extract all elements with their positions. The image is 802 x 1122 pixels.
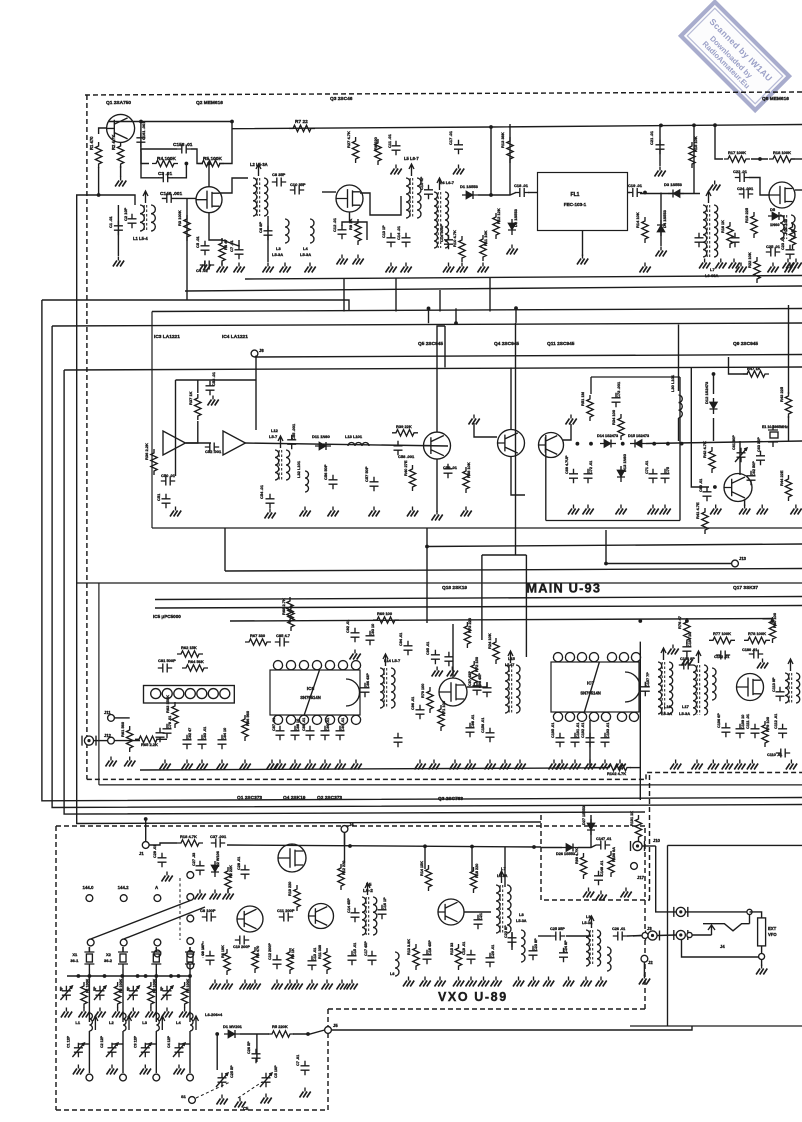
wire D4 xyxy=(660,193,662,247)
switch linkage dashed b xyxy=(238,1082,262,1098)
transformer L18 xyxy=(785,673,789,703)
wire c147 xyxy=(578,845,596,848)
svg-text:C26 5P: C26 5P xyxy=(247,1041,251,1054)
trimmer C4 12P xyxy=(175,1043,184,1057)
ground X2 trim xyxy=(95,1012,106,1018)
node r17 xyxy=(758,157,762,161)
transformer L15 L5-67 xyxy=(505,665,509,713)
resistor R17 100K xyxy=(724,156,750,162)
svg-text:R14 10K: R14 10K xyxy=(635,212,640,228)
node det xyxy=(489,193,493,197)
switch wiper contact 3a xyxy=(154,939,161,946)
svg-text:J1: J1 xyxy=(139,851,144,856)
connector box xyxy=(630,845,802,1026)
resistor R4 100K xyxy=(181,982,187,1008)
node rail link a xyxy=(427,307,431,311)
capacitor C106 6P xyxy=(721,723,730,737)
svg-text:C91 .01: C91 .01 xyxy=(341,718,345,731)
ground IC6 d xyxy=(305,764,316,770)
svg-text:C21: C21 xyxy=(479,913,483,920)
ground tr c xyxy=(785,267,796,273)
svg-text:C96 .01: C96 .01 xyxy=(411,697,415,710)
wire Q9 down xyxy=(744,500,746,506)
svg-text:R1 470: R1 470 xyxy=(89,136,94,150)
svg-text:R102 4.7K: R102 4.7K xyxy=(607,771,626,776)
mixer aux dashed right xyxy=(649,773,651,901)
svg-text:C6 8P: C6 8P xyxy=(258,222,263,233)
ground D2 xyxy=(507,249,518,255)
wire X3 stem xyxy=(155,969,157,1022)
oscillator block box xyxy=(546,377,680,521)
wire J3 to P2 xyxy=(657,934,676,937)
svg-text:C11 200P: C11 200P xyxy=(277,908,295,913)
ground R20 xyxy=(783,263,794,269)
svg-text:C146 .001: C146 .001 xyxy=(160,191,182,197)
svg-text:R68 2.7K: R68 2.7K xyxy=(281,598,286,615)
filter FL1 FEC-103-1 xyxy=(538,173,628,231)
capacitor C147 .01 xyxy=(596,841,610,850)
svg-text:R9 1K: R9 1K xyxy=(348,219,353,230)
resistor R19 225 xyxy=(751,212,757,238)
node lv3 xyxy=(771,619,775,623)
switch contact SW b xyxy=(687,932,692,937)
svg-text:C15 4P: C15 4P xyxy=(419,176,424,190)
svg-text:SN76514N: SN76514N xyxy=(300,695,321,700)
svg-text:C73 .001: C73 .001 xyxy=(616,381,621,398)
IF board box xyxy=(152,312,802,529)
ground vxo row 4 xyxy=(272,984,283,990)
crystal X2 36-2 xyxy=(120,954,126,962)
wire fb vert xyxy=(197,380,199,393)
coil L10 vxo xyxy=(607,947,611,971)
svg-text:C24 8P: C24 8P xyxy=(564,940,568,953)
connector X3 bottom xyxy=(153,1074,160,1081)
switch wiper contact 2 xyxy=(120,939,127,946)
resistor R79 100 xyxy=(762,721,768,747)
resistor R14 10K xyxy=(642,217,648,243)
ground c95g xyxy=(432,671,443,677)
svg-text:R11 330: R11 330 xyxy=(318,945,322,959)
wire rail link a xyxy=(428,308,430,323)
capacitor C90 .01 xyxy=(321,726,330,740)
wire L7 riser xyxy=(504,847,506,887)
wire Q1 collector rail xyxy=(108,121,141,123)
trimmer cap X2 5P xyxy=(96,986,105,1000)
resistor R11 330 xyxy=(324,948,330,974)
wire l9 row2 xyxy=(566,935,591,937)
wire jog horizontal xyxy=(482,554,527,556)
resistor R8 220 xyxy=(375,139,381,165)
wire Q2 out xyxy=(219,178,248,193)
ground IC5 b xyxy=(182,764,193,770)
svg-text:Q1 2SA750: Q1 2SA750 xyxy=(106,100,131,106)
svg-text:EXT: EXT xyxy=(768,926,777,931)
resistor R12 220 xyxy=(338,864,344,890)
node d12 xyxy=(712,372,716,376)
wire FL1 in xyxy=(528,192,538,194)
connector J8 xyxy=(251,350,258,357)
arrow L3 xyxy=(160,1016,165,1030)
ground vxo row 8 xyxy=(322,984,333,990)
svg-text:J2: J2 xyxy=(648,960,653,965)
wire J1 drop xyxy=(145,819,147,842)
transformer L14 L5-7 xyxy=(380,668,384,708)
resistor R47 1K xyxy=(743,371,769,377)
wire q11 base xyxy=(563,424,571,440)
capacitor C54 .01 xyxy=(266,494,275,508)
svg-text:L15: L15 xyxy=(508,656,516,661)
capacitor C16 500P xyxy=(444,235,453,249)
capacitor C84 10 xyxy=(218,735,227,749)
ground C12 xyxy=(337,259,348,265)
diode D26 1S553 xyxy=(566,844,573,852)
node busbar xyxy=(77,974,81,978)
resistor R3 100K xyxy=(184,215,190,241)
ground Q9a xyxy=(710,509,721,515)
wire d12 down xyxy=(713,418,715,441)
capacitor C2 10P xyxy=(128,214,137,228)
ground FL1 xyxy=(577,259,588,265)
transformer L16 L5-3A xyxy=(658,662,662,714)
node rail d xyxy=(713,123,717,127)
svg-text:R19 225: R19 225 xyxy=(744,207,749,223)
resistor R14 15K xyxy=(425,865,431,891)
node D3 in xyxy=(643,191,647,195)
node busbar xyxy=(154,974,158,978)
resistor R15 10K xyxy=(689,142,695,168)
capacitor C69 4.7UP xyxy=(569,469,578,483)
svg-text:L7: L7 xyxy=(710,267,715,272)
ground X4 res xyxy=(179,1012,190,1018)
svg-text:C111 .01: C111 .01 xyxy=(746,714,750,729)
capacitor C1 .01 xyxy=(114,221,123,235)
resistor R10 220 vxo xyxy=(294,885,300,911)
wire Q4 coll xyxy=(510,367,512,429)
resistor EXT VFO box xyxy=(758,918,766,946)
svg-text:R73 220: R73 220 xyxy=(467,617,472,633)
svg-text:C17 .01: C17 .01 xyxy=(448,130,453,145)
capacitor C11 200P xyxy=(279,913,293,922)
svg-text:C12 .01: C12 .01 xyxy=(332,217,337,232)
capacitor C85 4.7 xyxy=(275,638,289,647)
wire rail link b xyxy=(455,308,457,323)
ground C72 xyxy=(583,509,594,515)
connector ext vfo xyxy=(759,954,765,960)
wire L30 up xyxy=(678,325,680,392)
svg-text:R2 4.7K: R2 4.7K xyxy=(111,135,116,150)
svg-text:C113 8P: C113 8P xyxy=(772,677,776,692)
capacitor C22 .01 xyxy=(735,173,749,182)
svg-text:Q3 2SC783: Q3 2SC783 xyxy=(438,796,463,802)
wire X3 stem top xyxy=(155,947,157,952)
wire drop b xyxy=(395,279,397,312)
wire ext gnd stub xyxy=(761,960,763,966)
ground Q9d xyxy=(790,509,801,515)
wire mid rail 2 xyxy=(245,276,802,280)
wire FL1 out xyxy=(628,192,631,194)
switch wafer diagonal 2 xyxy=(124,907,205,939)
capacitor C17 .01 xyxy=(454,140,463,154)
resistor R63 150K xyxy=(172,702,178,728)
ground q18 b xyxy=(429,764,440,770)
coil L32 L101 xyxy=(305,471,309,492)
svg-text:C92 .01: C92 .01 xyxy=(346,620,350,633)
resistor R41 4.7E xyxy=(702,508,708,534)
ground vxo b xyxy=(210,894,221,900)
ground q18 c xyxy=(450,764,461,770)
svg-text:C85 4.7: C85 4.7 xyxy=(276,633,291,638)
wire j4 drop xyxy=(344,832,346,863)
capacitor C91 .01 xyxy=(336,726,345,740)
svg-text:C5: C5 xyxy=(243,1106,249,1111)
svg-text:C109 10: C109 10 xyxy=(741,715,745,729)
wire R15 xyxy=(693,126,695,194)
wire j1 r18 xyxy=(149,843,177,845)
node osc f xyxy=(680,442,684,446)
svg-text:C53 .01: C53 .01 xyxy=(211,371,216,386)
connector X2 bottom xyxy=(120,1074,127,1081)
svg-text:Q18 2SK19: Q18 2SK19 xyxy=(442,585,467,591)
svg-text:R37 1K: R37 1K xyxy=(188,391,193,405)
resistor R18 4.7K vxo xyxy=(177,840,203,846)
svg-text:C16 500P: C16 500P xyxy=(439,224,444,242)
ground X1 trim2 xyxy=(73,1069,84,1075)
wire X4 stem low xyxy=(189,1031,191,1073)
ground ext vfo xyxy=(756,969,767,975)
transformer L7 L6-68A xyxy=(703,205,707,257)
switch linkage dashed xyxy=(196,1082,230,1098)
resistor R18 220 vxo2 xyxy=(470,867,476,893)
svg-text:C156 .01: C156 .01 xyxy=(481,718,485,733)
svg-text:C3 12P: C3 12P xyxy=(133,1035,137,1048)
svg-text:C147 .01: C147 .01 xyxy=(596,837,611,841)
wire opamp2 out xyxy=(245,443,448,446)
ground L3 xyxy=(280,267,291,273)
switch linkage dashed 3 xyxy=(179,878,181,940)
capacitor C21 .01 xyxy=(656,140,665,154)
node busbar xyxy=(188,974,192,978)
wire X4 stem top xyxy=(189,947,191,952)
svg-text:L6: L6 xyxy=(390,972,394,976)
ground vxo right 5 xyxy=(478,981,489,987)
svg-text:R71 100: R71 100 xyxy=(441,700,446,716)
svg-text:R24 10K: R24 10K xyxy=(487,633,492,649)
wire bias3 xyxy=(191,149,203,164)
svg-text:C29 .01: C29 .01 xyxy=(153,845,157,858)
switch contact A xyxy=(154,895,161,902)
wire bias2 xyxy=(141,149,177,164)
svg-text:R6 10K: R6 10K xyxy=(221,945,225,958)
ground X1 trim xyxy=(61,1012,72,1018)
ground bl d xyxy=(300,1092,311,1098)
capacitor C89 .01 xyxy=(306,726,315,740)
svg-text:R34 100: R34 100 xyxy=(611,409,616,425)
ground aux a xyxy=(583,892,594,898)
wire R2 gnd xyxy=(120,166,122,177)
ground C56 xyxy=(328,511,339,517)
wire v link a xyxy=(490,127,492,195)
svg-text:R3 100K: R3 100K xyxy=(177,210,182,226)
wire drop to Q18 area xyxy=(481,555,483,640)
capacitor C161 .001 xyxy=(136,133,145,147)
ground vxo right 2 xyxy=(435,981,446,987)
ground R61 xyxy=(124,761,135,767)
svg-text:L5-3A: L5-3A xyxy=(516,919,527,923)
svg-text:IC7: IC7 xyxy=(587,681,595,687)
ground ic7r b xyxy=(692,764,703,770)
wire left bus 3 xyxy=(64,370,645,814)
svg-text:L6-206×4: L6-206×4 xyxy=(205,1012,223,1017)
capacitor C5 .01 xyxy=(201,241,210,255)
resistor R2 4.7K xyxy=(117,142,123,168)
node feed c xyxy=(470,845,474,849)
wire J8 rail xyxy=(255,355,802,358)
capacitor C13 1P xyxy=(387,233,396,247)
ground C16 xyxy=(443,267,454,273)
svg-text:R14 15K: R14 15K xyxy=(420,861,424,876)
svg-text:5P: 5P xyxy=(126,986,130,991)
capacitor C51 electrolytic xyxy=(162,494,171,508)
svg-text:D15 1S2473: D15 1S2473 xyxy=(628,434,649,438)
node busbar xyxy=(169,974,173,978)
node J1 rail xyxy=(144,817,148,821)
node J13 in xyxy=(604,562,608,566)
svg-text:C14 .01: C14 .01 xyxy=(396,225,401,240)
svg-text:R8 470: R8 470 xyxy=(256,946,260,958)
capacitor C8 100P xyxy=(202,913,216,922)
capacitor C25 .01 xyxy=(766,248,780,257)
ground ic7p b xyxy=(557,764,568,770)
resistor R60 2.7K xyxy=(287,597,293,623)
wire ext vfo top xyxy=(750,912,762,918)
ground C51 xyxy=(170,511,181,517)
svg-text:C71 .01: C71 .01 xyxy=(645,461,649,474)
coil L6 vxo xyxy=(395,952,399,976)
diode D5 1N60 xyxy=(772,212,779,220)
wire X4 trim branch xyxy=(179,1043,190,1045)
ground IC6 c xyxy=(290,764,301,770)
ground IC6 a xyxy=(267,764,278,770)
diode D13 1N60 xyxy=(617,470,625,477)
crystal X1 36-1 xyxy=(86,954,92,962)
svg-text:L6 L6-7: L6 L6-7 xyxy=(440,180,455,185)
ground c104b xyxy=(668,649,679,655)
ground Q5 xyxy=(432,515,443,521)
ground X3 res xyxy=(145,1012,156,1018)
node osc a xyxy=(576,442,580,446)
capacitor C12 .01 xyxy=(338,225,347,239)
node busbar xyxy=(177,974,181,978)
resistor R39 22K xyxy=(392,430,418,436)
ground C104 xyxy=(681,660,692,666)
node busbar xyxy=(88,974,92,978)
svg-text:IC4 LA1221: IC4 LA1221 xyxy=(222,334,248,340)
switch contact SW a xyxy=(747,909,752,914)
svg-text:C25 .01: C25 .01 xyxy=(766,244,781,249)
capacitor C20b .01 xyxy=(731,233,740,247)
VXO dashed bottom xyxy=(328,1008,645,1010)
wire opamp1 out xyxy=(185,442,211,444)
svg-text:R18 220: R18 220 xyxy=(475,864,479,878)
resistor R61 560 xyxy=(127,726,133,752)
ground C5 xyxy=(200,265,211,271)
svg-text:C106 6P: C106 6P xyxy=(717,713,721,728)
crystal X4 36-4 xyxy=(187,954,193,962)
resistor R73 220 xyxy=(464,622,470,648)
ground ic7p a xyxy=(549,764,560,770)
connector J5 xyxy=(325,1027,332,1034)
svg-text:C52 .001: C52 .001 xyxy=(205,449,222,454)
svg-text:C95 .01: C95 .01 xyxy=(426,642,430,655)
ground IC5 d xyxy=(217,764,228,770)
IC5 resistor array xyxy=(144,686,235,704)
wire mid rail xyxy=(185,286,802,291)
ground ic7p d xyxy=(585,764,596,770)
wire Q3 gate xyxy=(322,191,336,193)
svg-text:R66 560: R66 560 xyxy=(245,710,250,726)
svg-text:C83 .01: C83 .01 xyxy=(203,727,207,740)
wire fb vert2 xyxy=(186,421,198,443)
wire Q5 down xyxy=(436,459,438,512)
coil L30 L101 xyxy=(679,395,683,418)
svg-text:X1: X1 xyxy=(72,952,78,957)
resistor R62 15E xyxy=(177,651,203,657)
capacitor C62 50P xyxy=(747,471,756,485)
svg-text:L7: L7 xyxy=(501,866,506,871)
svg-text:J3: J3 xyxy=(647,926,652,931)
wire Q9 base feed xyxy=(691,367,709,487)
capacitor C156 .01 xyxy=(486,728,495,742)
transistor Q vxo 2 xyxy=(309,904,334,929)
svg-text:R16 1K: R16 1K xyxy=(721,220,725,233)
svg-text:R13 38K: R13 38K xyxy=(500,132,505,148)
svg-text:C19 .01: C19 .01 xyxy=(462,942,466,955)
wire r5 j5 xyxy=(293,1030,325,1034)
capacitor C80 .01 xyxy=(156,728,165,742)
diode D27 1S553 xyxy=(587,823,595,830)
resistor R16 1K xyxy=(727,222,733,248)
svg-text:R5 220K: R5 220K xyxy=(272,1024,288,1029)
wire X3 stem low xyxy=(155,1031,157,1073)
svg-text:C63 30P: C63 30P xyxy=(757,437,761,452)
capacitor C37 .001 xyxy=(211,839,225,848)
coax connector P1 xyxy=(676,907,685,916)
node busbar xyxy=(103,974,107,978)
wire varactor branch 2 xyxy=(256,1034,258,1062)
svg-text:C7 .01: C7 .01 xyxy=(229,239,234,252)
ground ic7r c xyxy=(708,764,719,770)
resistor R99 4.7K xyxy=(580,853,586,879)
coax jack J12 input xyxy=(84,736,93,745)
capacitor C14 45P xyxy=(351,908,360,922)
wire rail below MAIN 3 xyxy=(230,619,773,622)
capacitor C16 1P xyxy=(378,905,387,919)
svg-text:C104 10: C104 10 xyxy=(688,633,692,647)
capacitor C25 35P xyxy=(551,932,565,941)
capacitor C98 .01 xyxy=(466,723,475,737)
switch contact B xyxy=(187,894,194,901)
svg-text:J13: J13 xyxy=(739,556,747,561)
capacitor C7 .01 bottom xyxy=(301,1061,310,1075)
svg-text:L16: L16 xyxy=(664,704,672,709)
svg-text:C28 .01: C28 .01 xyxy=(237,857,241,870)
ground C7 xyxy=(234,267,245,273)
node osc b xyxy=(589,442,593,446)
capacitor C20 .01 xyxy=(695,233,704,247)
wire c26 j3 xyxy=(627,935,641,938)
svg-text:R22 10K: R22 10K xyxy=(747,252,752,268)
wire d12 link xyxy=(713,374,715,394)
